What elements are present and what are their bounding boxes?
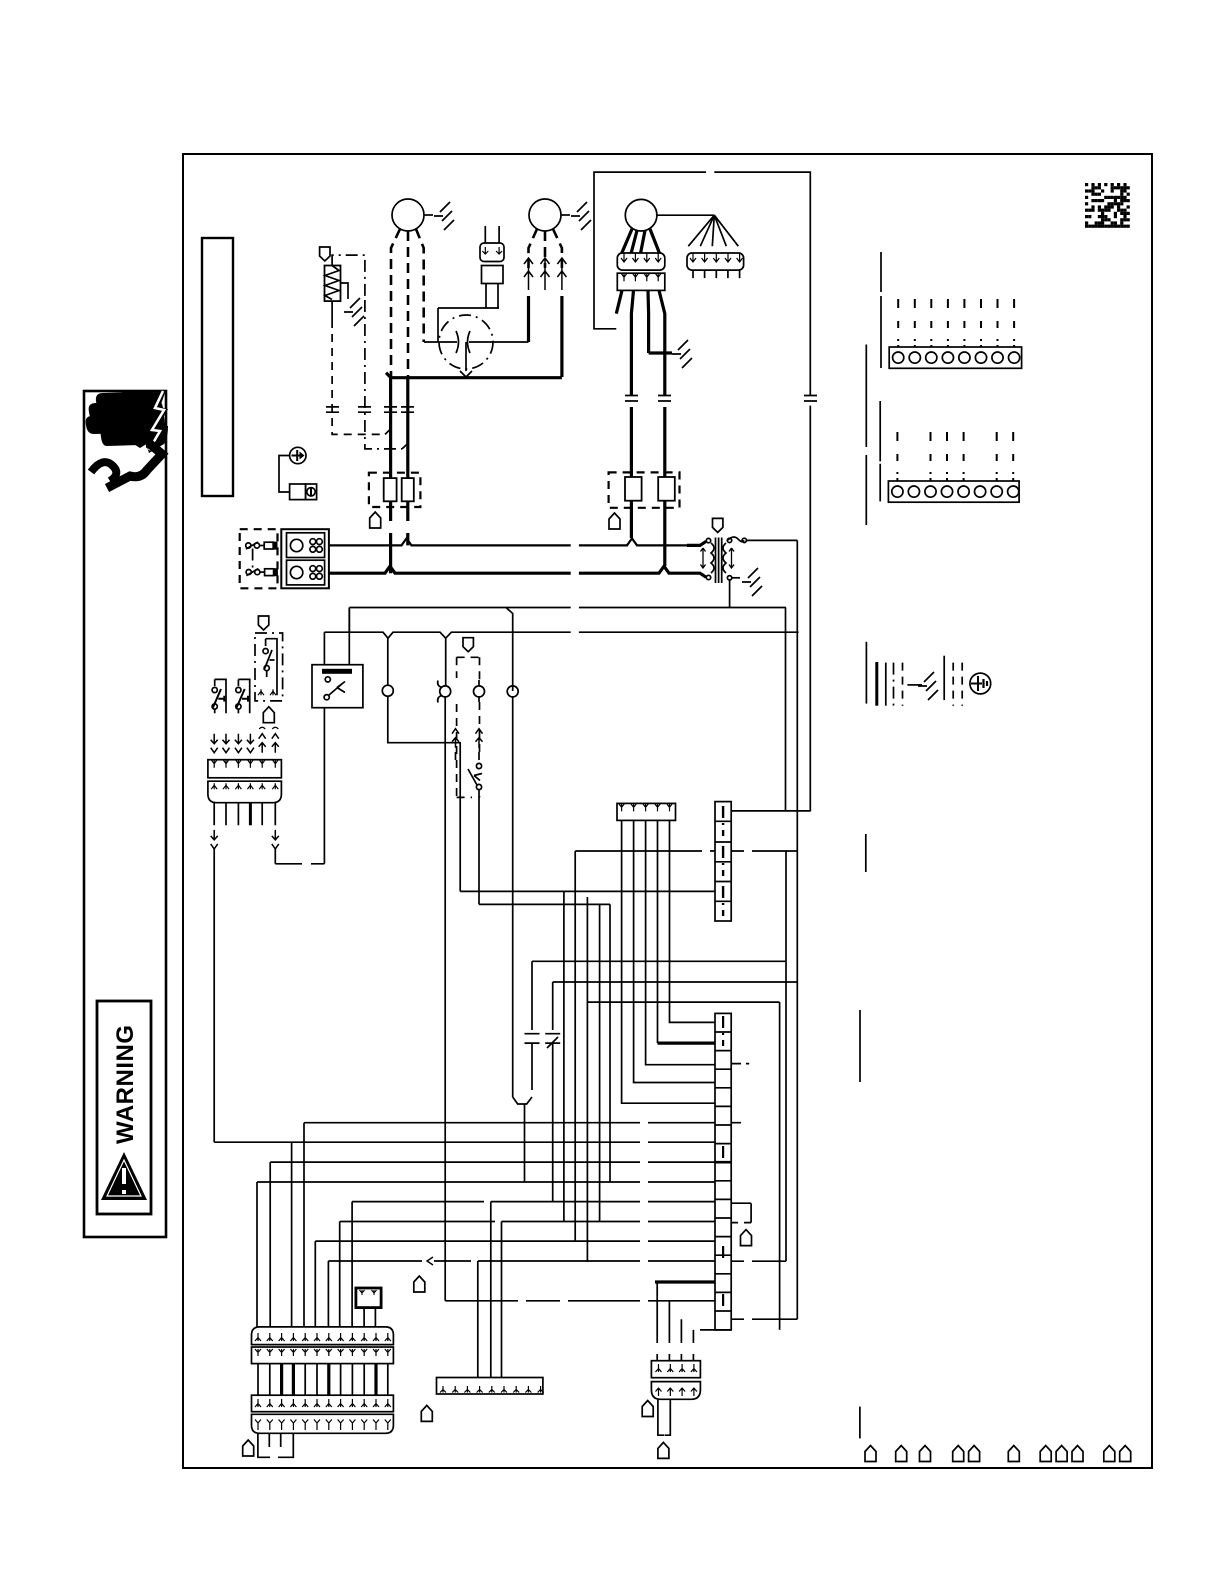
blower motor M3 <box>625 199 657 231</box>
fuse leads to contactor bus <box>391 501 408 521</box>
indicator circle <box>382 685 393 696</box>
24V bus lower <box>324 632 798 638</box>
ground lug <box>290 447 306 463</box>
Y merge of cap line <box>513 1097 532 1182</box>
lower ladder connector EDC2 <box>715 1013 731 1330</box>
main pressure lines down <box>445 697 513 1301</box>
mesh horizontals upper <box>532 961 797 1002</box>
earthing terminal circle <box>970 673 991 694</box>
junction wire M1/M2/cap <box>386 373 562 378</box>
heater dash-dot right leg <box>365 300 402 449</box>
M1 leads (dashed) <box>391 229 400 377</box>
left switch cluster SW1 <box>215 679 226 713</box>
data matrix barcode <box>1085 183 1130 228</box>
ground wire cluster <box>865 642 867 704</box>
disconnect switch upper <box>246 543 251 548</box>
break ticks M3 leads <box>625 396 817 402</box>
M3 motor leads to plug P1 <box>622 229 660 253</box>
M2 leads <box>529 229 538 268</box>
heater ground tap <box>340 283 348 299</box>
P1 mating half <box>617 273 665 290</box>
blower compartment outline box <box>594 172 810 811</box>
molded plug connector <box>485 226 499 243</box>
pentagon plug mark below F1 <box>370 512 381 528</box>
main PCB edge connector bands <box>252 1327 394 1345</box>
bottom center connector <box>651 1361 700 1378</box>
P1 output leads <box>616 290 665 395</box>
defrost limit switch <box>476 763 481 768</box>
low voltage terminal strip TB1 <box>889 347 1021 368</box>
6 pin connector J1 <box>208 760 282 778</box>
transformer <box>713 518 723 532</box>
EDC1 left links <box>460 851 715 891</box>
condenser motor M2 <box>529 199 561 231</box>
ground wire cluster right <box>943 656 945 700</box>
warning sidebar outer box <box>84 391 166 1237</box>
J1 tails <box>214 803 262 826</box>
hand shock hazard icon <box>86 390 168 488</box>
thermostat terminal strip TB2 <box>888 481 1019 502</box>
plug lower leads <box>438 284 499 343</box>
mesh horizontals into EDC2 <box>304 1123 715 1327</box>
svg-text:WARNING: WARNING <box>112 1025 139 1145</box>
connector shield above heater <box>320 247 330 261</box>
TB1 field leads (dashed) <box>897 299 899 347</box>
TB1 side verticals <box>880 252 882 368</box>
middle comb connector <box>437 1378 543 1395</box>
TB2 field leads (dashed) <box>896 432 898 481</box>
field wiring pentagon row <box>865 1446 876 1462</box>
field wiring break ticks <box>326 407 414 412</box>
bottom right stubs <box>860 834 866 1438</box>
disconnect dashed box <box>240 529 278 588</box>
blower relay BR <box>312 665 363 708</box>
pressure switch circles <box>440 686 451 697</box>
M1 lead solid continuations <box>389 377 392 478</box>
page border <box>183 154 1152 1468</box>
harness plug P2 <box>687 253 744 270</box>
legend tall rectangle <box>202 238 233 496</box>
EDC2 right stubs <box>731 1064 751 1223</box>
contactor CC <box>281 529 329 588</box>
right side verticals <box>780 540 798 1330</box>
left switch cluster SW2 <box>238 679 249 713</box>
heater top lead (dash-dot) <box>332 255 365 300</box>
compressor motor M1 <box>392 199 424 231</box>
heater bottom lead <box>331 301 333 320</box>
warning triangle icon <box>101 1152 147 1200</box>
relay coil loop <box>275 708 324 864</box>
pressure switch dashed box <box>463 638 473 652</box>
power bus L1 <box>329 538 687 545</box>
switch arrows <box>452 729 459 748</box>
power bus L2 <box>329 566 687 573</box>
run capacitor (dash-dot circle) <box>439 315 493 369</box>
J2 tails into board <box>622 820 715 1103</box>
PCB bracket below <box>258 1433 293 1457</box>
long wires to PCB <box>214 848 275 1142</box>
high limit dash-dot box <box>258 616 268 630</box>
mesh verticals hanging <box>564 851 610 1262</box>
upper ladder connector EDC1 <box>715 802 731 921</box>
capacitor C1 <box>525 961 540 1090</box>
fuse block F1 (dashed box) <box>369 473 421 507</box>
transformer TRANS primary stubs <box>687 541 706 577</box>
EDC1 right links <box>731 608 810 852</box>
crankcase heater resistor <box>325 266 341 302</box>
fuse block F2 (dashed box) <box>609 472 680 507</box>
M3 harness fan to plug P2 <box>688 215 738 246</box>
24V bus upper <box>349 608 786 692</box>
connector arrows down <box>211 734 218 753</box>
capacitor C2 thermal fuse <box>545 982 560 1202</box>
TB2 side verticals <box>879 401 881 501</box>
WARNING label box <box>97 1001 151 1214</box>
small relay box K2 <box>356 1288 381 1308</box>
5 pin block J2 <box>617 803 676 820</box>
disconnect switch lower <box>246 570 251 575</box>
